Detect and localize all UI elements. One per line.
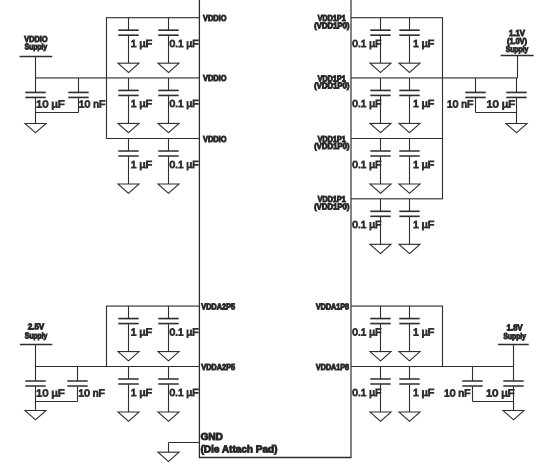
svg-text:VDDA1P8: VDDA1P8: [316, 363, 349, 372]
svg-text:10 µF: 10 µF: [36, 388, 64, 399]
ground (below 1 uF, VDDA2P5 group 1): [118, 352, 139, 361]
wire: join bottom of 1.1V supply caps: [476, 112, 517, 114]
wire: VDDIO pin 2 (from VDDIO supply): [36, 77, 200, 79]
power symbol: 1.8V supply bar: [498, 344, 529, 346]
svg-text:(VDD1P0): (VDD1P0): [314, 142, 350, 151]
ground (1.8V supply): [503, 411, 524, 420]
wire: GND pin (die attach pad): [169, 442, 200, 444]
wire: VDDIO supply stem: [35, 57, 37, 78]
capacitor 1 uF (VDDA1P8 group 2): [399, 367, 419, 413]
svg-text:1 µF: 1 µF: [413, 39, 434, 50]
capacitor 0.1 uF (VDDIO group 3): [158, 139, 178, 185]
wire: right IC rail (VDD1P1/VDDA1P8 pins): [350, 0, 352, 458]
wire: stem to GND ground symbol: [168, 443, 170, 453]
capacitor 1 uF (VDDIO group 1): [118, 18, 138, 64]
wire: right bus joining VDDA1P8 pins: [442, 306, 444, 366]
capacitor 0.1 uF (VDDA2P5 group 2): [158, 367, 178, 413]
svg-text:1 µF: 1 µF: [131, 388, 152, 399]
ground (below 1 uF, VDD1P1 group 2): [399, 123, 420, 132]
ground (below 0.1 uF, VDD1P1 group 4): [370, 244, 391, 253]
capacitor 0.1 uF (VDDA2P5 group 1): [158, 306, 178, 352]
ground (below 1 uF, VDDA2P5 group 2): [118, 412, 139, 421]
wire: VDDA2P5 pin 2 (from 2.5V supply): [36, 366, 200, 368]
svg-text:(Die Attach Pad): (Die Attach Pad): [201, 445, 278, 456]
svg-text:10 µF: 10 µF: [36, 100, 64, 111]
svg-text:1 µF: 1 µF: [413, 220, 434, 231]
capacitor 10 uF (2.5V supply): [25, 367, 45, 402]
svg-text:10 nF: 10 nF: [447, 100, 474, 111]
svg-text:10 µF: 10 µF: [486, 388, 515, 399]
ground (below 0.1 uF, VDDIO group 2): [158, 123, 179, 132]
capacitor 1 uF (VDD1P1 group 3): [399, 139, 419, 185]
ground (below 1 uF, VDDIO group 1): [118, 63, 139, 72]
node 1.8V Supply (label): [503, 323, 526, 341]
svg-text:VDDA2P5: VDDA2P5: [201, 303, 235, 312]
node VDD1P1 (VDD1P0) pin 2 label: [314, 74, 350, 90]
svg-text:Supply: Supply: [25, 43, 48, 52]
svg-text:10 nF: 10 nF: [444, 388, 471, 399]
capacitor 0.1 uF (VDDA1P8 group 2): [370, 367, 390, 413]
wire: VDD1P1 pin 1: [351, 17, 443, 19]
svg-text:10 nF: 10 nF: [79, 100, 106, 111]
capacitor 1 uF (VDDA2P5 group 2): [118, 367, 138, 413]
svg-text:VDDIO: VDDIO: [203, 135, 227, 144]
svg-text:2.5V: 2.5V: [28, 322, 45, 331]
svg-text:0.1 µF: 0.1 µF: [170, 160, 199, 171]
capacitor 1 uF (VDDA1P8 group 1): [399, 306, 419, 352]
ground (below 0.1 uF, VDD1P1 group 2): [370, 123, 391, 132]
wire: join bottom of 1.8V supply caps: [473, 401, 514, 403]
svg-text:Supply: Supply: [506, 45, 529, 54]
svg-text:0.1 µF: 0.1 µF: [352, 160, 381, 171]
wire: 1.1V supply stem: [517, 56, 519, 78]
svg-text:(VDD1P0): (VDD1P0): [314, 82, 350, 91]
power symbol: VDDIO supply bar: [20, 56, 53, 58]
ground (below 0.1 uF, VDD1P1 group 3): [370, 184, 391, 193]
wire: stem to VDDIO supply ground: [35, 113, 37, 124]
wire: VDD1P1 pin 2: [351, 77, 518, 79]
ground (below 1 uF, VDDA1P8 group 1): [399, 352, 420, 361]
ground (below 1 uF, VDDIO group 3): [118, 184, 139, 193]
capacitor 0.1 uF (VDD1P1 group 3): [370, 139, 390, 185]
svg-text:VDDIO: VDDIO: [203, 74, 227, 83]
wire: left IC rail (VDDIO/VDDA2P5/GND pins): [198, 0, 200, 458]
wire: VDDA1P8 pin 2 (to 1.8V supply): [351, 366, 514, 368]
wire: stem to 1.1V supply ground: [516, 113, 518, 124]
ground (below 0.1 uF, VDDIO group 1): [158, 63, 179, 72]
capacitor 1 uF (VDD1P1 group 2): [399, 78, 419, 124]
capacitor 1 uF (VDDA2P5 group 1): [118, 306, 138, 352]
ground (below 0.1 uF, VDDA1P8 group 2): [370, 412, 391, 421]
svg-text:1 µF: 1 µF: [131, 99, 152, 110]
ground (below 1 uF, VDD1P1 group 4): [399, 244, 420, 253]
svg-text:Supply: Supply: [25, 332, 48, 341]
ground (below 1 uF, VDD1P1 group 3): [399, 184, 420, 193]
wire: bottom edge connecting rails: [199, 457, 352, 459]
capacitor 1 uF (VDD1P1 group 1): [399, 18, 419, 64]
ground (die attach pad): [158, 452, 179, 461]
wire: VDDA1P8 pin 1: [351, 305, 443, 307]
capacitor 10 nF (2.5V supply): [67, 367, 87, 402]
svg-text:(VDD1P0): (VDD1P0): [314, 202, 350, 211]
ground (2.5V supply): [25, 411, 46, 420]
svg-text:1 µF: 1 µF: [131, 39, 152, 50]
capacitor 10 uF (VDDIO supply): [25, 78, 45, 113]
ground (below 0.1 uF, VDDIO group 3): [158, 184, 179, 193]
wire: left bus joining VDDIO pins 1-3: [106, 18, 108, 139]
capacitor 10 nF (VDDIO supply): [68, 78, 88, 113]
svg-text:0.1 µF: 0.1 µF: [352, 327, 381, 338]
svg-text:Supply: Supply: [503, 332, 526, 341]
wire: VDDIO pin 1: [106, 17, 199, 19]
svg-text:0.1 µF: 0.1 µF: [352, 220, 381, 231]
svg-text:0.1 µF: 0.1 µF: [170, 388, 199, 399]
svg-text:10 µF: 10 µF: [487, 100, 516, 111]
ground (below 1 uF, VDDIO group 2): [118, 123, 139, 132]
svg-text:0.1 µF: 0.1 µF: [170, 327, 199, 338]
svg-text:0.1 µF: 0.1 µF: [352, 388, 381, 399]
capacitor 1 uF (VDDIO group 3): [118, 139, 138, 185]
svg-text:0.1 µF: 0.1 µF: [352, 39, 381, 50]
svg-text:1 µF: 1 µF: [413, 388, 434, 399]
svg-text:1.8V: 1.8V: [507, 323, 524, 332]
wire: VDDIO pin 3: [106, 138, 199, 140]
wire: stem to 2.5V supply ground: [35, 402, 37, 411]
node VDD1P1 (VDD1P0) pin 4 label: [314, 195, 350, 211]
ground (below 1 uF, VDDA1P8 group 2): [399, 412, 420, 421]
ground (1.1V supply): [506, 124, 527, 133]
wire: stem to 1.8V supply ground: [513, 402, 515, 411]
capacitor 0.1 uF (VDD1P1 group 1): [370, 18, 390, 64]
ground (below 1 uF, VDD1P1 group 1): [399, 63, 420, 72]
ground (below 0.1 uF, VDDA1P8 group 1): [370, 352, 391, 361]
svg-text:(VDD1P0): (VDD1P0): [314, 21, 350, 30]
svg-text:0.1 µF: 0.1 µF: [352, 99, 381, 110]
wire: left bus joining VDDA2P5 pins: [106, 306, 108, 366]
node 1.1V (1.0V) Supply (label): [506, 29, 529, 54]
svg-text:0.1 µF: 0.1 µF: [170, 99, 199, 110]
wire: join bottom of VDDIO supply caps: [36, 112, 79, 114]
svg-text:1 µF: 1 µF: [131, 327, 152, 338]
capacitor 1 uF (VDDIO group 2): [118, 78, 138, 124]
capacitor 1 uF (VDD1P1 group 4): [399, 199, 419, 245]
power symbol: 1.1V supply bar: [501, 55, 534, 57]
capacitor 10 uF (1.8V supply): [503, 367, 523, 402]
wire: 2.5V supply stem: [35, 345, 37, 367]
svg-text:VDDA1P8: VDDA1P8: [316, 303, 349, 312]
capacitor 0.1 uF (VDD1P1 group 4): [370, 199, 390, 245]
wire: join bottom of 2.5V supply caps: [36, 401, 78, 403]
node VDD1P1 (VDD1P0) pin 3 label: [314, 135, 350, 151]
node VDD1P1 (VDD1P0) pin 1 label: [314, 14, 350, 30]
svg-text:0.1 µF: 0.1 µF: [170, 39, 199, 50]
node 2.5V Supply (label): [25, 322, 48, 340]
wire: VDD1P1 pin 4: [351, 198, 443, 200]
capacitor 0.1 uF (VDDA1P8 group 1): [370, 306, 390, 352]
capacitor 0.1 uF (VDD1P1 group 2): [370, 78, 390, 124]
svg-text:10 nF: 10 nF: [78, 388, 105, 399]
capacitor 0.1 uF (VDDIO group 1): [158, 18, 178, 64]
power symbol: 2.5V supply bar: [20, 344, 52, 346]
node VDDIO Supply (label): [24, 35, 47, 52]
ground (below 0.1 uF, VDDA2P5 group 2): [158, 412, 179, 421]
ground (below 0.1 uF, VDDA2P5 group 1): [158, 352, 179, 361]
svg-text:GND: GND: [201, 432, 223, 443]
wire: right bus joining VDD1P1 pins 1-4: [442, 18, 444, 199]
svg-text:VDDIO: VDDIO: [203, 14, 227, 23]
capacitor 0.1 uF (VDDIO group 2): [158, 78, 178, 124]
svg-text:1 µF: 1 µF: [413, 160, 434, 171]
capacitor 10 nF (1.8V supply): [462, 367, 482, 402]
wire: VDDA2P5 pin 1: [106, 305, 199, 307]
wire: 1.8V supply stem: [513, 345, 515, 367]
ground (VDDIO supply): [25, 124, 46, 133]
wire: VDD1P1 pin 3: [351, 138, 443, 140]
capacitor 10 nF (1.1V supply): [465, 78, 485, 113]
capacitor 10 uF (1.1V supply): [506, 78, 526, 113]
svg-text:1 µF: 1 µF: [413, 327, 434, 338]
svg-text:1 µF: 1 µF: [413, 99, 434, 110]
svg-text:VDDA2P5: VDDA2P5: [201, 363, 235, 372]
svg-text:1 µF: 1 µF: [131, 160, 152, 171]
ground (below 0.1 uF, VDD1P1 group 1): [370, 63, 391, 72]
node GND (Die Attach Pad) label: [201, 432, 278, 455]
